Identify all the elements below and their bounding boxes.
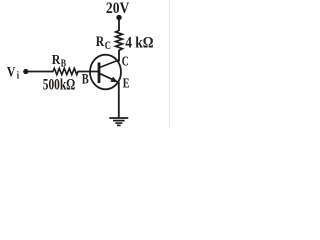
svg-text:R: R [96,33,105,50]
svg-text:B: B [82,71,89,87]
svg-text:20V: 20V [106,0,130,17]
svg-text:B: B [61,59,66,70]
svg-text:C: C [105,40,111,53]
svg-text:500kΩ: 500kΩ [43,77,75,94]
svg-text:4 kΩ: 4 kΩ [125,34,153,51]
svg-text:C: C [122,53,129,69]
svg-text:i: i [17,71,20,82]
svg-text:R: R [52,51,61,67]
svg-text:E: E [123,75,130,91]
svg-text:V: V [7,63,16,80]
